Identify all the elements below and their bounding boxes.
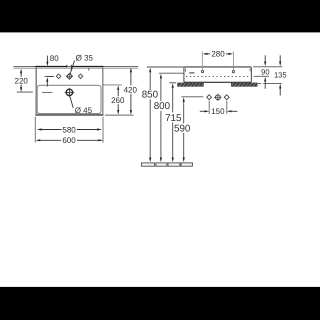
inner edge ticks <box>186 69 251 72</box>
svg-text:420: 420 <box>124 85 138 94</box>
dimension 260 <box>102 85 125 115</box>
extension line 850 (rim top to left) <box>147 66 184 68</box>
dimension 590 <box>174 97 191 162</box>
dimension 150 <box>200 101 238 116</box>
dimension 420 <box>105 68 138 116</box>
dimension 850 <box>142 68 159 163</box>
dimension 135 arrows <box>274 55 287 95</box>
extension line rim top (right) <box>253 66 282 68</box>
faucet hole diamonds <box>56 73 83 79</box>
svg-text:220: 220 <box>15 76 29 85</box>
basin body rectangle <box>184 67 252 83</box>
floor line (segmented bar) <box>141 163 192 166</box>
dimension 800 <box>154 74 171 163</box>
dimension 80 <box>45 54 59 87</box>
extension lines for 580/600 <box>35 117 103 143</box>
svg-text:150: 150 <box>211 107 225 116</box>
svg-text:260: 260 <box>111 96 125 105</box>
svg-text:800: 800 <box>154 101 171 112</box>
extension line 800 (overflow level to left) <box>159 72 184 74</box>
svg-text:590: 590 <box>174 123 191 134</box>
dimension 90 arrows <box>261 55 269 89</box>
dimension 280 <box>202 50 233 70</box>
basin inner bowl <box>37 85 101 113</box>
label Ø 45 with leader <box>70 97 93 115</box>
hidden dashed line (rim depth 90) <box>186 76 250 78</box>
basin outer rectangle <box>35 67 103 115</box>
svg-text:Ø 45: Ø 45 <box>75 106 93 115</box>
svg-text:580: 580 <box>62 125 76 134</box>
white drawing sheet band <box>0 32 320 287</box>
svg-text:Ø 35: Ø 35 <box>76 53 94 62</box>
svg-text:600: 600 <box>62 136 76 145</box>
svg-text:135: 135 <box>274 70 287 79</box>
svg-text:80: 80 <box>50 54 59 63</box>
wall bracket hatch right <box>231 83 257 87</box>
extension line apron bottom 135 <box>258 83 262 85</box>
wall bracket hatch left <box>178 83 204 87</box>
dimension 600 <box>36 136 104 145</box>
wall line (double) behind basin <box>13 67 138 69</box>
water connection diamonds + crosshair <box>207 94 229 101</box>
drain symbol <box>42 88 74 98</box>
dimension 220 <box>15 69 33 93</box>
overflow slot dash <box>189 72 194 74</box>
svg-text:280: 280 <box>211 50 225 59</box>
dimension 580 <box>37 125 102 134</box>
extension line rim bottom 90 <box>254 75 269 77</box>
dimension 715 <box>165 83 182 162</box>
basin rear rim edge (black segments with overflow slot gap) <box>35 65 103 71</box>
mounting holes <box>201 71 234 73</box>
svg-text:850: 850 <box>142 90 159 101</box>
label Ø 35 with leader <box>70 53 93 73</box>
svg-text:90: 90 <box>261 68 269 77</box>
extension line 590 level <box>181 96 203 98</box>
